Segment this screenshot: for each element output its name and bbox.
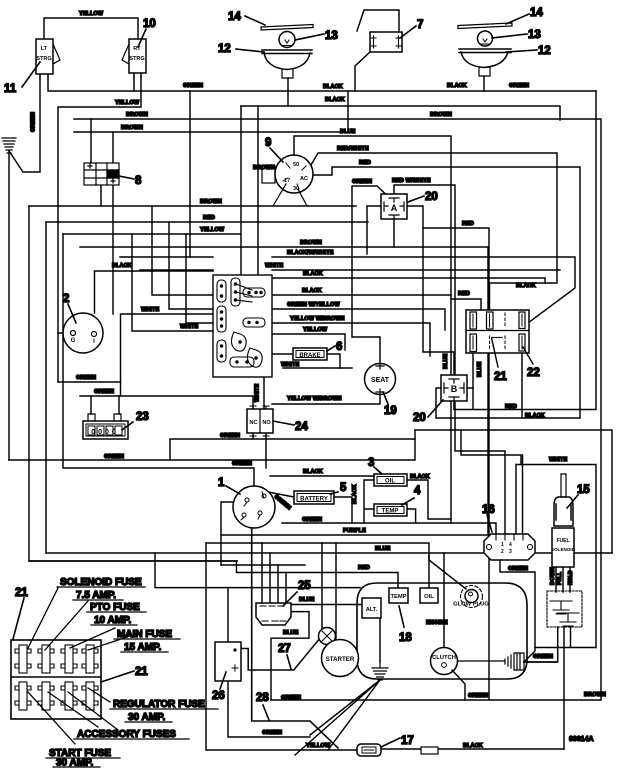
lens 14 right bbox=[458, 23, 512, 29]
wire yellow y334 bbox=[272, 334, 345, 350]
wire v206 to yellow bottom bbox=[206, 543, 357, 750]
svg-text:7: 7 bbox=[417, 19, 423, 31]
svg-text:WHITE: WHITE bbox=[265, 263, 283, 269]
fuel solenoid 15 bbox=[551, 474, 576, 567]
svg-text:12: 12 bbox=[538, 45, 551, 57]
wire black y476 pto to oil bbox=[270, 475, 374, 477]
wire block bottom to NC/NO 24 bbox=[263, 377, 265, 409]
wire brown y119 bbox=[74, 119, 601, 700]
starter solenoid circle bbox=[319, 628, 336, 645]
svg-text:BLACK: BLACK bbox=[516, 283, 536, 289]
wire alt to engine ground bbox=[379, 618, 381, 662]
svg-text:BLACK: BLACK bbox=[525, 413, 545, 419]
svg-text:24: 24 bbox=[295, 421, 308, 433]
connector 17 bbox=[357, 744, 381, 756]
svg-text:13: 13 bbox=[528, 29, 541, 41]
wire right headlamp stem bbox=[483, 76, 485, 91]
turn signal LT STRG bbox=[36, 39, 60, 80]
wire 25 top pins bbox=[262, 543, 286, 603]
svg-text:10: 10 bbox=[143, 18, 156, 30]
wire oil right leg bbox=[407, 480, 451, 519]
wire white y331 bbox=[132, 234, 213, 331]
alt box bbox=[362, 598, 381, 618]
clutch coil speaker bbox=[458, 653, 524, 670]
wire green relayA to seat bbox=[352, 186, 393, 362]
svg-text:ENGINE: ENGINE bbox=[426, 620, 448, 626]
svg-text:GLOW PLUG: GLOW PLUG bbox=[453, 602, 489, 608]
svg-text:25: 25 bbox=[298, 580, 311, 592]
wire relay8 bottom pins bbox=[101, 185, 113, 314]
svg-text:0000: 0000 bbox=[91, 429, 119, 436]
wire glow box to black bottom bbox=[563, 627, 565, 749]
wire red y228 bbox=[423, 228, 489, 700]
svg-text:GREEN: GREEN bbox=[183, 83, 203, 89]
svg-text:GREEN: GREEN bbox=[533, 654, 553, 660]
svg-text:YELLOW: YELLOW bbox=[115, 100, 140, 106]
wire lightswitch G leg bbox=[58, 333, 121, 382]
connector 21-22 block bbox=[466, 310, 529, 353]
wire 26 bottom to y737 bbox=[228, 681, 310, 737]
headlamp right reflector 12 bbox=[458, 23, 512, 76]
wire yellow top between turn signals bbox=[44, 18, 138, 39]
relay 8 bbox=[84, 163, 119, 185]
starter bbox=[322, 640, 359, 677]
wire blue v473 block pin to red y409 bbox=[472, 352, 474, 409]
svg-text:TEMP: TEMP bbox=[382, 509, 399, 515]
svg-text:RED W/WHITE: RED W/WHITE bbox=[392, 178, 431, 184]
svg-text:WHITE: WHITE bbox=[281, 362, 299, 368]
switch 24 NC NO bbox=[247, 406, 273, 436]
svg-text:12: 12 bbox=[218, 43, 231, 55]
svg-text:4: 4 bbox=[509, 542, 512, 548]
wire block pin v522 bbox=[521, 352, 523, 418]
svg-text:BLACK: BLACK bbox=[303, 271, 323, 277]
svg-text:YELLOW W/BROWN: YELLOW W/BROWN bbox=[287, 396, 342, 402]
wire y587 bus bbox=[155, 553, 360, 588]
wire glow box left pin to coil bbox=[524, 627, 558, 662]
svg-text:ALT.: ALT. bbox=[366, 607, 378, 613]
wire hourmeter terminals bbox=[91, 396, 119, 414]
svg-text:21: 21 bbox=[15, 587, 28, 599]
wire relayB right pin bbox=[467, 387, 473, 389]
svg-text:RED: RED bbox=[505, 404, 517, 410]
svg-text:B: B bbox=[451, 384, 458, 394]
wire pto bottom leg v251 bold to 17 bbox=[252, 525, 338, 748]
temp sender box bbox=[389, 588, 408, 603]
turn signal RT STRG bbox=[122, 39, 146, 79]
wire starter feeds bbox=[322, 543, 336, 641]
light switch 2 bbox=[63, 313, 103, 353]
wire relay8 top pins bbox=[91, 119, 113, 163]
wire v63 to green y468 bbox=[63, 234, 254, 486]
wire clutch bottom bbox=[452, 670, 465, 700]
svg-text:BLACK: BLACK bbox=[112, 263, 132, 269]
wire v348 bbox=[347, 91, 349, 132]
svg-text:2: 2 bbox=[501, 549, 504, 555]
svg-text:BLACK: BLACK bbox=[352, 484, 358, 504]
svg-text:YELLOW: YELLOW bbox=[79, 11, 104, 17]
wire brown y206 bbox=[29, 205, 356, 207]
svg-text:27: 27 bbox=[278, 643, 291, 655]
svg-text:GREEN: GREEN bbox=[232, 461, 252, 467]
relay A 20 bbox=[381, 194, 407, 219]
svg-text:GREEN: GREEN bbox=[509, 83, 529, 89]
wire 26 top leg bbox=[227, 588, 229, 642]
wire left frame v1 bbox=[8, 152, 10, 460]
key switch 9 bbox=[262, 155, 313, 206]
connector 25 bbox=[256, 603, 291, 625]
wire y543 bbox=[206, 543, 429, 588]
svg-text:BROWN: BROWN bbox=[300, 240, 322, 246]
svg-text:CLUTCH: CLUTCH bbox=[432, 655, 456, 661]
wire black y271 lightswitch bbox=[95, 271, 214, 313]
wire battery right leg bbox=[334, 497, 352, 523]
svg-text:28: 28 bbox=[256, 692, 269, 704]
wire clutch top bbox=[443, 553, 445, 647]
svg-text:RED: RED bbox=[462, 221, 474, 227]
wire no bottom to green y468 bbox=[265, 433, 267, 468]
wire brown y247 to glow controller bbox=[80, 247, 488, 534]
svg-text:GREEN W/YELLOW: GREEN W/YELLOW bbox=[287, 302, 340, 308]
wire v46 to blue y553 bbox=[45, 222, 47, 553]
svg-text:GREEN: GREEN bbox=[104, 454, 124, 460]
wire relayA right pin to relayB top bbox=[407, 206, 454, 375]
wire glow controller green to coil bbox=[500, 560, 535, 662]
svg-text:17: 17 bbox=[401, 735, 414, 747]
wire black y295 bbox=[152, 206, 481, 310]
wire relayB bottom to red y409 bbox=[453, 401, 455, 409]
svg-text:GREEN: GREEN bbox=[31, 112, 37, 132]
wire black y278 bbox=[272, 278, 545, 283]
svg-text:GREEN: GREEN bbox=[220, 433, 240, 439]
wire fuel solenoid leads bbox=[556, 567, 570, 592]
svg-text:GREEN: GREEN bbox=[76, 375, 96, 381]
svg-text:BROWN: BROWN bbox=[430, 112, 452, 118]
connector 7 bbox=[370, 32, 402, 52]
glow controller 16 bbox=[484, 534, 535, 560]
svg-text:6: 6 bbox=[336, 341, 342, 353]
wire black y106 bbox=[241, 106, 560, 120]
temp gauge 4 bbox=[374, 504, 407, 516]
wire yellow-w-brown y404 seat bottom bbox=[272, 396, 380, 404]
instrument connector block bbox=[213, 275, 272, 377]
svg-text:AC: AC bbox=[300, 176, 308, 182]
svg-text:BLACK: BLACK bbox=[323, 84, 343, 90]
svg-text:FULL: FULL bbox=[557, 572, 563, 585]
wire temp right leg bbox=[408, 509, 416, 523]
wire key switch red y167 bbox=[313, 167, 580, 418]
wire relayA left pin bbox=[367, 206, 381, 254]
relay B 20 bbox=[441, 375, 467, 401]
svg-text:YELLOW W/BROWN: YELLOW W/BROWN bbox=[290, 316, 345, 322]
svg-text:BLACK: BLACK bbox=[410, 474, 430, 480]
svg-text:23: 23 bbox=[136, 411, 149, 423]
wire white y314 bbox=[121, 314, 214, 396]
svg-text:GREEN: GREEN bbox=[94, 389, 114, 395]
svg-text:00014A: 00014A bbox=[569, 736, 594, 743]
wire relayA bottom pin bbox=[393, 219, 395, 247]
svg-text:OIL: OIL bbox=[424, 594, 434, 600]
svg-text:BLACK: BLACK bbox=[463, 743, 483, 749]
wire black y418 bbox=[436, 417, 580, 419]
svg-text:21: 21 bbox=[135, 666, 148, 678]
wire white y270 bbox=[140, 269, 560, 271]
wire v190 green down bbox=[189, 91, 191, 257]
wire 25 blue down to green y700 bbox=[271, 612, 309, 700]
svg-text:BLUE: BLUE bbox=[477, 361, 483, 377]
wire y647 bottom junction bbox=[535, 627, 596, 648]
svg-text:SEAT: SEAT bbox=[371, 377, 390, 384]
svg-text:STRG: STRG bbox=[36, 56, 52, 62]
svg-text:BLUE: BLUE bbox=[299, 597, 315, 603]
wire red y222 bbox=[46, 221, 368, 223]
svg-text:21: 21 bbox=[494, 371, 507, 383]
wire green y430 bbox=[415, 430, 612, 553]
wire connector7 left leg bbox=[355, 52, 370, 91]
glow plug symbol bbox=[453, 586, 489, 608]
svg-text:GREEN: GREEN bbox=[352, 179, 372, 185]
wire relayB left pin bbox=[436, 388, 441, 418]
svg-text:13: 13 bbox=[325, 30, 338, 42]
wire oil temp left v364 bbox=[364, 480, 374, 523]
wire RT STRG left pin bbox=[133, 73, 135, 91]
svg-text:BLACK: BLACK bbox=[303, 469, 323, 475]
svg-text:BLUE: BLUE bbox=[375, 546, 391, 552]
svg-text:GREEN: GREEN bbox=[508, 566, 528, 572]
svg-text:WHITE: WHITE bbox=[549, 457, 567, 463]
svg-text:BROWN: BROWN bbox=[584, 692, 606, 698]
svg-text:TEMP: TEMP bbox=[390, 594, 406, 600]
svg-text:DOWN: DOWN bbox=[550, 567, 556, 585]
wire key switch blue y136 bbox=[294, 136, 451, 523]
svg-text:BLACK/W/WHITE: BLACK/W/WHITE bbox=[287, 250, 334, 256]
wire ground fan lines bbox=[295, 680, 380, 755]
wire blue y553 bbox=[46, 552, 612, 554]
wire pto green diag to battery bbox=[268, 492, 294, 497]
bulb 13 left bbox=[279, 32, 295, 48]
svg-text:FUEL: FUEL bbox=[556, 538, 569, 544]
glow plugs dotted box bbox=[547, 591, 582, 627]
svg-text:BROWN: BROWN bbox=[200, 199, 222, 205]
wire glow plug feed bbox=[429, 553, 466, 589]
lens 14 left bbox=[261, 25, 313, 31]
wire LT STRG to ground bbox=[9, 75, 40, 172]
wire red y409 bbox=[454, 91, 596, 410]
svg-text:WHITE: WHITE bbox=[180, 324, 198, 330]
oil sender box bbox=[420, 588, 438, 603]
wire v29 to blue2 bbox=[29, 206, 237, 561]
wire white y464 bbox=[516, 465, 596, 648]
svg-text:GREEN: GREEN bbox=[302, 517, 322, 523]
engine ground bbox=[372, 662, 388, 680]
wire v241 to block bbox=[240, 106, 242, 275]
inline fuse bottom bbox=[421, 747, 438, 754]
svg-text:LT: LT bbox=[41, 46, 48, 52]
svg-text:PURPLE: PURPLE bbox=[343, 528, 366, 534]
svg-text:YELLOW: YELLOW bbox=[306, 743, 331, 749]
wire RT STRG right pin to yellow y107 bbox=[58, 73, 141, 382]
svg-text:RED: RED bbox=[203, 215, 215, 221]
wire black/w/white y257 bbox=[120, 257, 575, 326]
wire black y749 bbox=[381, 748, 564, 750]
svg-text:3: 3 bbox=[509, 549, 512, 555]
wire green y430 to white bbox=[461, 430, 521, 464]
wire 26 right leg to starter solenoid bbox=[241, 636, 322, 670]
svg-text:STRG: STRG bbox=[129, 56, 145, 62]
svg-text:A: A bbox=[391, 203, 398, 213]
svg-text:14: 14 bbox=[228, 11, 241, 23]
oil gauge 3 bbox=[374, 474, 407, 486]
seat switch 19 bbox=[365, 364, 396, 395]
wire nc bottom green y439 bbox=[170, 430, 415, 460]
svg-text:15: 15 bbox=[577, 484, 590, 496]
svg-text:WHITE: WHITE bbox=[141, 307, 159, 313]
svg-text:OIL: OIL bbox=[385, 479, 395, 485]
wire v258 to block bbox=[257, 106, 259, 275]
connector 7 hood bbox=[357, 10, 399, 31]
wire coil green bbox=[524, 661, 558, 663]
wire green y523 bbox=[282, 523, 496, 534]
svg-text:BATTERY: BATTERY bbox=[300, 497, 328, 503]
svg-text:RED: RED bbox=[458, 291, 470, 297]
svg-text:20: 20 bbox=[413, 412, 426, 424]
svg-text:5: 5 bbox=[340, 482, 347, 494]
svg-text:20: 20 bbox=[425, 191, 438, 203]
brake switch 6 bbox=[293, 348, 327, 360]
wire left headlamp stem bbox=[287, 78, 289, 106]
wire brake left pin bbox=[272, 353, 293, 355]
ground left bbox=[2, 138, 16, 153]
wire green y396 bbox=[80, 396, 253, 409]
svg-text:26: 26 bbox=[212, 690, 225, 702]
svg-text:BRAKE: BRAKE bbox=[299, 353, 320, 359]
regulator 26 bbox=[215, 642, 241, 681]
headlamp left reflector 12 bbox=[261, 25, 313, 79]
wire brown y132 bbox=[74, 131, 348, 133]
wire green bus y91 across headlamps bbox=[48, 75, 596, 91]
svg-text:50: 50 bbox=[293, 162, 299, 168]
svg-text:YELLOW: YELLOW bbox=[200, 227, 225, 233]
battery gauge 5 bbox=[294, 491, 334, 504]
svg-text:22: 22 bbox=[527, 367, 540, 379]
wire yellow y234 bbox=[63, 233, 240, 235]
wire glow controller pins bbox=[508, 455, 523, 535]
svg-text:4: 4 bbox=[414, 485, 421, 497]
svg-text:14: 14 bbox=[530, 7, 543, 19]
fuse leader lines bbox=[28, 588, 142, 744]
svg-text:19: 19 bbox=[384, 405, 397, 417]
wire yellow-w-brown y323 bbox=[186, 234, 430, 356]
svg-text:RED/WHITE: RED/WHITE bbox=[337, 146, 369, 152]
wire green y700 bbox=[271, 699, 600, 701]
svg-text:NO: NO bbox=[262, 420, 271, 426]
svg-text:GREEN: GREEN bbox=[468, 693, 488, 699]
svg-text:GREEN: GREEN bbox=[262, 730, 282, 736]
svg-text:11: 11 bbox=[4, 83, 17, 95]
svg-text:GREEN: GREEN bbox=[281, 695, 301, 701]
wire blue2 y561 jog red bbox=[29, 561, 398, 588]
svg-text:16: 16 bbox=[482, 504, 495, 516]
wire key switch red/white y153 bbox=[307, 153, 557, 310]
svg-text:9: 9 bbox=[265, 137, 271, 149]
svg-text:18: 18 bbox=[399, 632, 412, 644]
wire green y460 bbox=[9, 439, 415, 460]
svg-text:BROWN: BROWN bbox=[253, 165, 275, 171]
svg-text:SOLENOID: SOLENOID bbox=[551, 547, 576, 552]
clutch bbox=[431, 648, 458, 675]
svg-text:WHITE: WHITE bbox=[255, 384, 261, 402]
svg-text:BLUE: BLUE bbox=[340, 129, 356, 135]
bulb 13 right bbox=[478, 31, 493, 46]
svg-text:BLACK: BLACK bbox=[447, 83, 467, 89]
svg-text:1: 1 bbox=[501, 542, 504, 548]
svg-text:STARTER: STARTER bbox=[326, 656, 355, 663]
svg-text:BLACK: BLACK bbox=[325, 97, 345, 103]
svg-text:NC: NC bbox=[250, 420, 258, 426]
svg-text:YELLOW: YELLOW bbox=[303, 327, 328, 333]
svg-text:8: 8 bbox=[135, 175, 142, 187]
svg-text:RED: RED bbox=[359, 160, 371, 166]
fuse block 21 bbox=[11, 640, 101, 719]
wire pto left leg bbox=[221, 502, 305, 565]
wire brake right pin bbox=[327, 354, 340, 368]
PTO switch 1 bbox=[233, 486, 275, 528]
svg-text:1: 1 bbox=[218, 477, 225, 489]
svg-text:BLUE: BLUE bbox=[283, 630, 299, 636]
svg-text:G: G bbox=[71, 338, 76, 344]
wire white y368 bbox=[283, 367, 352, 369]
svg-text:BLACK: BLACK bbox=[302, 288, 322, 294]
wire 25 blue to alt bbox=[291, 604, 362, 606]
svg-text:BLUE: BLUE bbox=[443, 353, 449, 369]
svg-text:BROWN: BROWN bbox=[126, 112, 148, 118]
wire green-w-yellow y309 bbox=[169, 222, 445, 330]
svg-text:RED: RED bbox=[358, 565, 370, 571]
wire red-w-white y185 bbox=[394, 185, 505, 534]
engine block outline bbox=[357, 583, 527, 679]
svg-text:BROWN: BROWN bbox=[121, 125, 143, 131]
svg-text:HOLD: HOLD bbox=[568, 570, 574, 585]
hour meter 23 bbox=[83, 414, 128, 439]
wire purple y535 bbox=[221, 534, 508, 536]
